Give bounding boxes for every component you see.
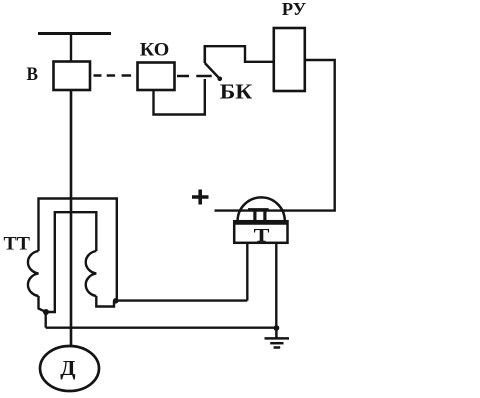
wire: KO bottom loop to BK contact — [154, 79, 205, 115]
dashed link B to KO — [94, 74, 138, 76]
motor D circle — [40, 346, 99, 391]
svg-text:Д: Д — [60, 356, 76, 380]
svg-text:ТТ: ТТ — [4, 234, 31, 255]
TT left winding tail — [39, 296, 46, 312]
node C (junction dot at TT right) — [113, 298, 119, 304]
svg-text:РУ: РУ — [282, 0, 307, 19]
wire: bottom run to ground node — [46, 327, 277, 329]
contact BK: fixed terminal — [204, 45, 207, 63]
wire: TT secondary to T left lead — [116, 299, 248, 301]
wire: RU right down to T anode line — [283, 60, 335, 211]
svg-text:БК: БК — [220, 79, 253, 103]
node A (junction dot at TT left) — [43, 309, 49, 315]
top bus bar — [38, 32, 111, 35]
wire: BK top to RU left — [205, 46, 274, 62]
svg-text:КО: КО — [140, 39, 170, 60]
ignitron T: dome — [238, 197, 285, 221]
wire: node A down to bottom run — [45, 312, 47, 328]
label + (polarity) — [192, 190, 209, 205]
svg-text:Т: Т — [254, 225, 270, 246]
relay coil KO box — [138, 63, 175, 91]
wire: T left lead down — [246, 243, 248, 301]
contact BK: blade — [205, 63, 220, 79]
ignitron T: body box — [234, 221, 287, 243]
dashed link KO to BK — [177, 75, 212, 77]
current transformer TT: outer loop — [39, 199, 117, 301]
TT inner loop — [46, 212, 96, 312]
TT left winding (2 bumps) — [28, 251, 39, 296]
node B (junction dot at ground) — [274, 325, 280, 331]
TT right winding tail — [96, 296, 114, 307]
TT right winding (2 bumps) — [86, 251, 97, 296]
relay RU box — [274, 28, 305, 91]
svg-text:В: В — [27, 64, 39, 85]
wire: T right lead down to ground node — [275, 243, 277, 328]
ground — [265, 328, 290, 348]
ignitron T: electrode bar and stubs — [248, 208, 269, 211]
anode wire into T (from + side) — [215, 209, 286, 211]
switch B box — [54, 62, 91, 91]
wire bus to switch B — [70, 34, 72, 62]
wire: primary conductor from B down through TT to D — [70, 90, 73, 346]
